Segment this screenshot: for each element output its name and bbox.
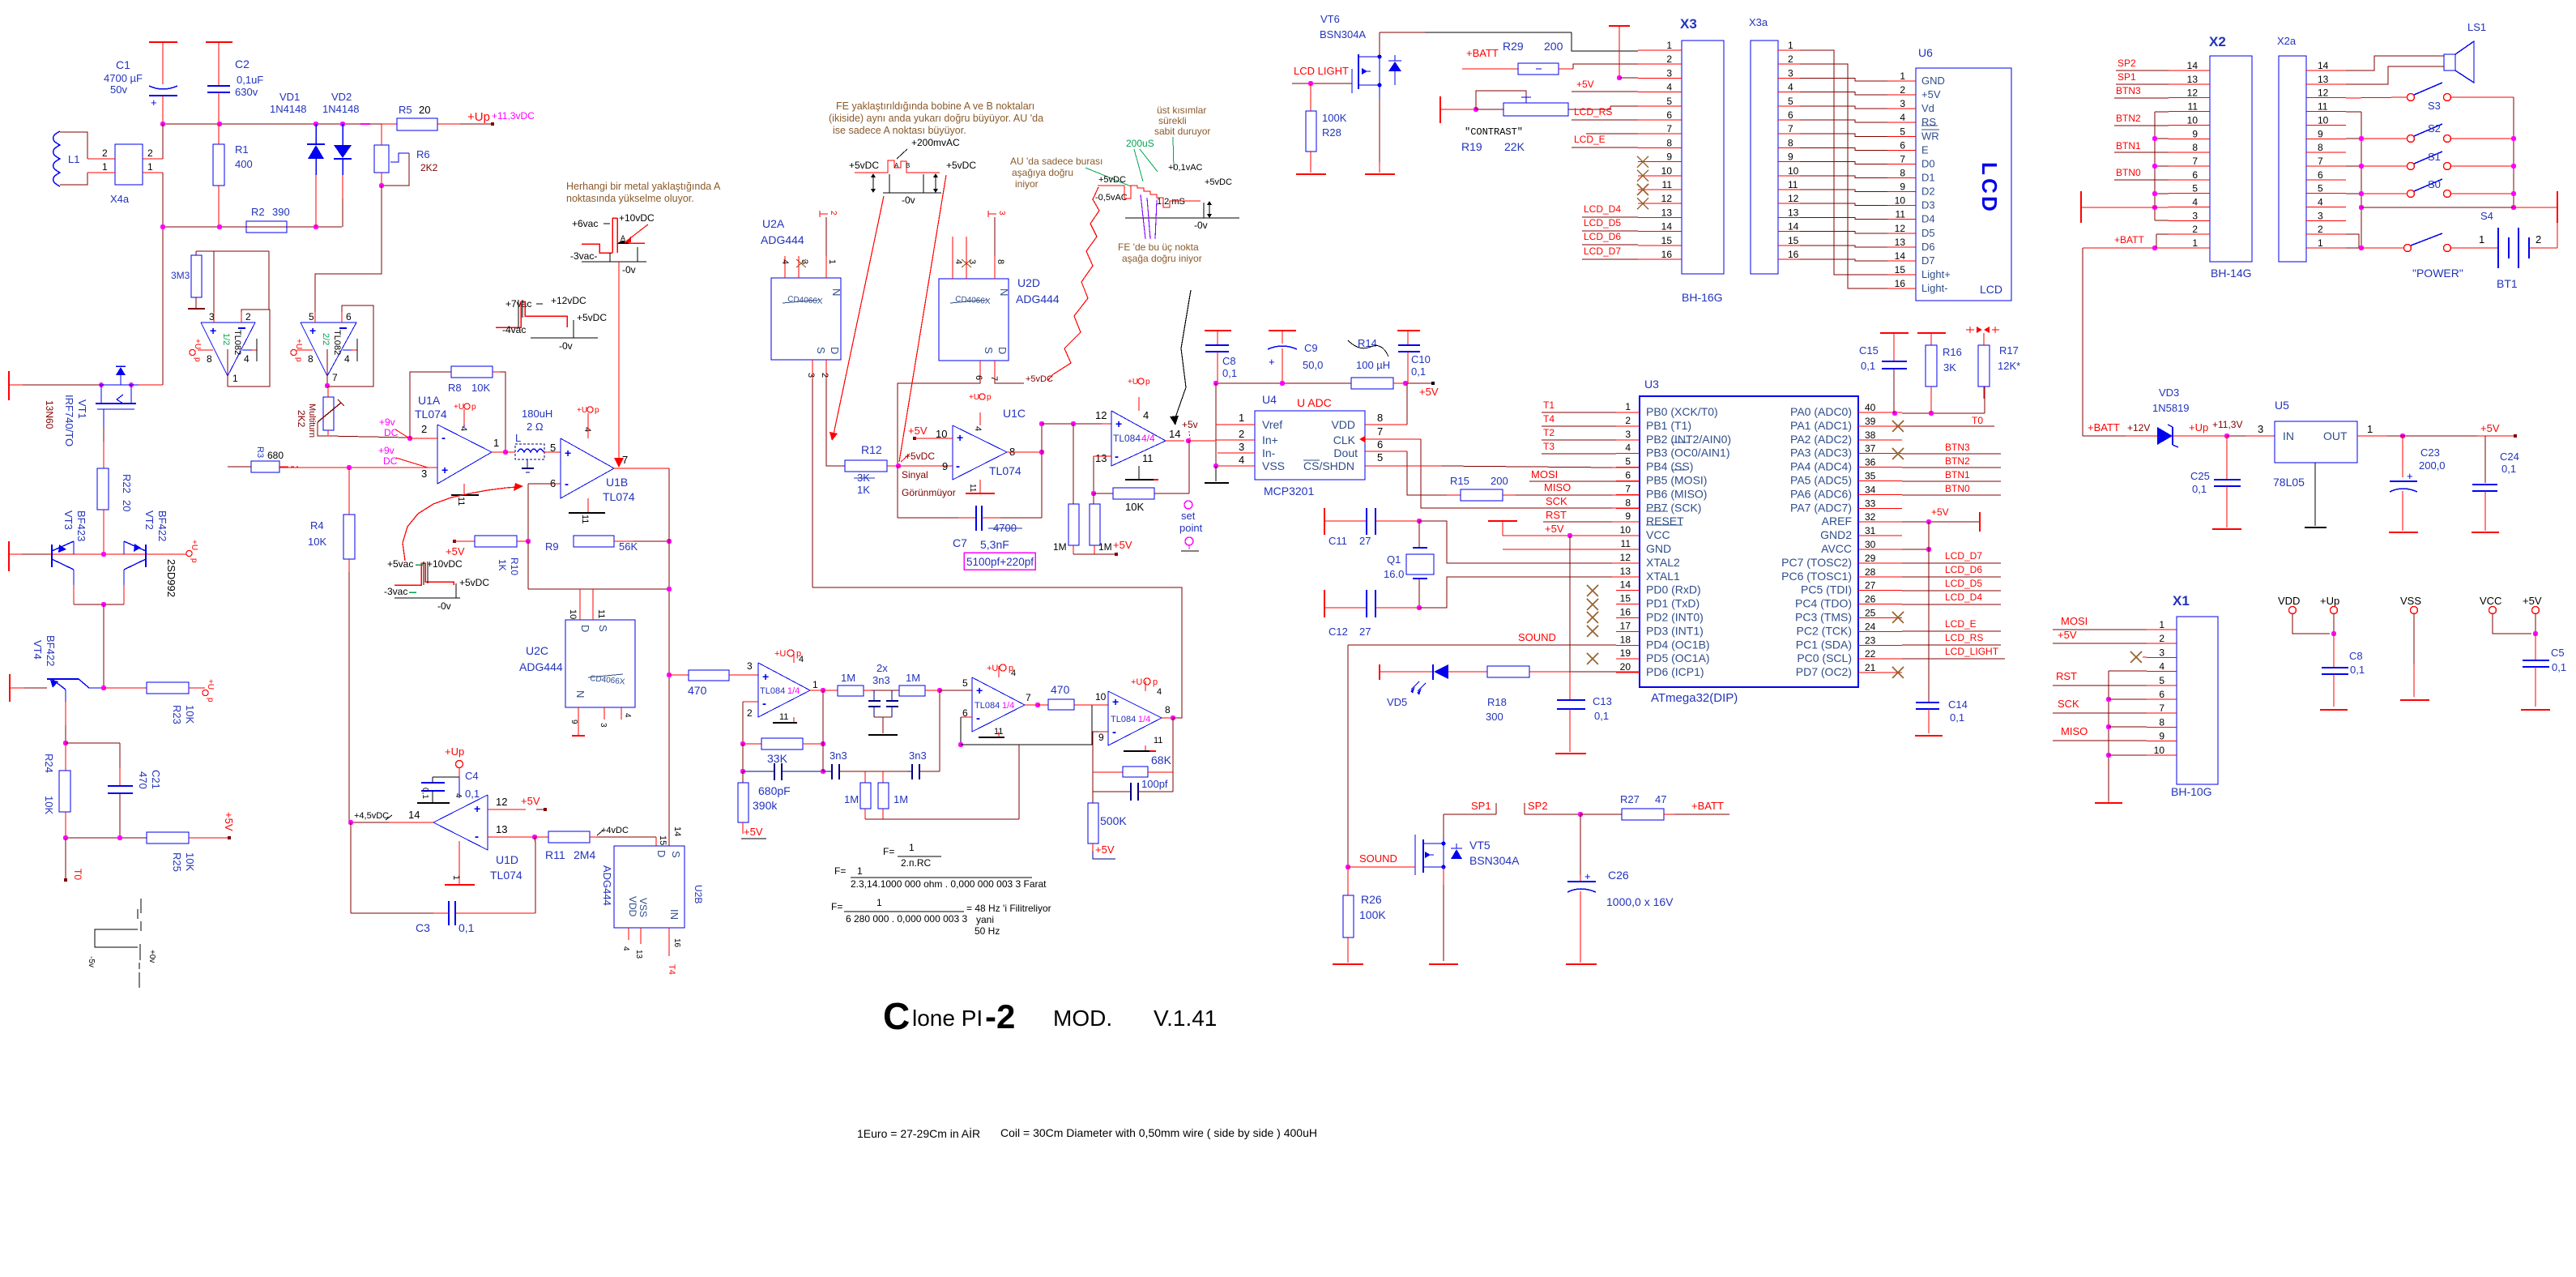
svg-text:R6: R6 [416, 148, 430, 160]
svg-text:11: 11 [596, 609, 606, 618]
svg-text:+U: +U [206, 679, 215, 690]
svg-text:-5v: -5v [87, 956, 96, 967]
svg-text:VT5: VT5 [1469, 839, 1491, 852]
svg-text:-: - [565, 477, 569, 491]
svg-text:VD2: VD2 [331, 91, 352, 103]
svg-text:PD7 (OC2): PD7 (OC2) [1796, 665, 1852, 678]
svg-text:+5V: +5V [1545, 523, 1564, 535]
svg-text:+5V: +5V [1576, 79, 1594, 90]
svg-text:TL074: TL074 [603, 490, 635, 503]
svg-text:1M: 1M [841, 672, 855, 684]
note FE de bu uc nokta [1118, 241, 1202, 264]
svg-text:5: 5 [1788, 96, 1793, 107]
svg-text:3n3: 3n3 [872, 674, 890, 686]
svg-text:C23: C23 [2420, 446, 2440, 459]
net BTN3 X2 [2114, 85, 2169, 98]
svg-text:34: 34 [1865, 484, 1876, 495]
x marks X3 pins 9-12 [1637, 156, 1648, 210]
wire U4 pin6 Dout to R15 [1365, 451, 1447, 495]
svg-text:p: p [471, 403, 476, 412]
net +5V X3 pin4 [1572, 79, 1638, 92]
svg-text:9: 9 [2159, 731, 2164, 742]
svg-text:100 µH: 100 µH [1356, 359, 1390, 371]
net SCK X1 [2053, 698, 2147, 713]
svg-text:6: 6 [2192, 169, 2198, 181]
svg-text:6: 6 [974, 375, 983, 380]
svg-text:7: 7 [1788, 123, 1793, 135]
wire X3a pin2 to Light- [1800, 64, 1887, 288]
svg-text:CS/SHDN: CS/SHDN [1303, 459, 1354, 472]
svg-text:D5: D5 [1921, 227, 1935, 239]
svg-text:4: 4 [2318, 197, 2323, 208]
net LCD_RS right [1902, 632, 2001, 645]
svg-text:R10: R10 [509, 557, 520, 575]
resistor R28 100K [1296, 83, 1347, 174]
svg-text:A: A [894, 162, 899, 169]
svg-text:5: 5 [2192, 183, 2198, 194]
svg-text:+9v: +9v [378, 445, 395, 456]
svg-text:R22: R22 [121, 474, 133, 493]
svg-text:470: 470 [1051, 683, 1070, 696]
svg-text:0,1: 0,1 [2552, 661, 2566, 673]
wire XTAL1 [1419, 577, 1640, 608]
svg-text:C1: C1 [116, 58, 130, 71]
capacitor C15 0,1 [1859, 333, 1909, 413]
svg-text:DC: DC [384, 427, 399, 438]
connector X3 BH-16G [1638, 16, 1724, 304]
svg-text:+: + [210, 324, 216, 337]
svg-text:L1: L1 [68, 153, 79, 165]
svg-text:1/4: 1/4 [787, 686, 800, 696]
svg-text:X3: X3 [1680, 16, 1697, 32]
svg-text:11: 11 [1896, 209, 1906, 220]
svg-text:set: set [1181, 510, 1196, 522]
svg-text:2: 2 [2318, 224, 2323, 235]
wire right bus switches [2511, 97, 2516, 210]
svg-text:-: - [475, 830, 479, 844]
svg-text:+5v: +5v [1182, 419, 1198, 430]
svg-text:-3vac: -3vac [384, 586, 407, 597]
wire R9 vertical to U2B [668, 468, 670, 846]
svg-text:13: 13 [1095, 452, 1107, 464]
power +Up terminal U1D [445, 745, 464, 777]
svg-text:S2: S2 [2428, 122, 2441, 135]
capacitor C12 27 [1324, 590, 1419, 638]
svg-text:BF422: BF422 [156, 510, 168, 541]
wire U4 pins left [1215, 425, 1255, 466]
svg-text:BTN2: BTN2 [2116, 113, 2141, 124]
svg-text:9: 9 [1098, 732, 1104, 743]
note ust kisimlar sabit duruyor [1154, 105, 1210, 137]
svg-text:+U: +U [577, 406, 587, 415]
op-amp TL084 4/4 [1095, 397, 1215, 480]
capacitor C26 1000,0x16V [1566, 814, 1674, 964]
svg-text:BH-16G: BH-16G [1682, 291, 1723, 304]
svg-text:C15: C15 [1859, 344, 1879, 357]
capacitor C5 0,1 [2521, 634, 2566, 710]
svg-text:-: - [1112, 725, 1116, 739]
svg-text:+5V: +5V [744, 826, 763, 838]
svg-text:Coil = 30Cm Diameter with 0,: Coil = 30Cm Diameter with 0,50mm wire ( … [1000, 1126, 1317, 1139]
svg-text:D1: D1 [1921, 171, 1935, 183]
analog switch U2A ADG444 [761, 217, 842, 379]
svg-text:PB6 (MISO): PB6 (MISO) [1646, 487, 1707, 500]
svg-text:MOSI: MOSI [1531, 468, 1558, 480]
svg-text:25: 25 [1865, 608, 1876, 619]
svg-text:-2: -2 [985, 997, 1015, 1036]
connector X3a [1749, 16, 1800, 274]
svg-text:PA2 (ADC2): PA2 (ADC2) [1790, 433, 1852, 446]
svg-text:MCP3201: MCP3201 [1264, 485, 1314, 498]
svg-text:16.0: 16.0 [1384, 568, 1404, 580]
svg-text:1: 1 [876, 897, 882, 908]
net LCD_D5 X3 [1582, 217, 1638, 231]
svg-text:14: 14 [1788, 221, 1799, 233]
set point marks [1179, 501, 1203, 551]
svg-text:= 48 Hz 'i Filitreliyor: = 48 Hz 'i Filitreliyor [966, 903, 1051, 914]
svg-text:3n3: 3n3 [830, 750, 847, 762]
svg-text:3: 3 [997, 211, 1006, 216]
capacitor C1 [104, 42, 177, 124]
wire pot to U1A pin2 [328, 436, 412, 441]
svg-text:SCK: SCK [2058, 698, 2079, 710]
svg-text:+5V: +5V [223, 812, 235, 831]
transistor VT3 BF423 [52, 541, 74, 604]
svg-text:26: 26 [1865, 594, 1876, 605]
svg-text:1K: 1K [497, 559, 508, 571]
label +9v DC arrow1 [379, 416, 408, 438]
switch S3 [2346, 83, 2514, 112]
svg-text:BF423: BF423 [75, 510, 87, 541]
svg-text:9: 9 [2318, 128, 2323, 139]
svg-text:4: 4 [623, 713, 632, 718]
svg-text:6: 6 [2159, 689, 2164, 700]
svg-text:sürekli: sürekli [1158, 115, 1187, 126]
svg-text:36: 36 [1865, 457, 1876, 468]
svg-text:13: 13 [496, 823, 507, 835]
net BTN2 [1902, 455, 2001, 468]
svg-text:R18: R18 [1487, 696, 1507, 708]
svg-text:680: 680 [267, 450, 284, 461]
resistor 3M3 [171, 251, 214, 309]
net BTN1 [1902, 469, 2001, 481]
svg-text:p: p [193, 357, 202, 362]
svg-text:üst kısımlar: üst kısımlar [1157, 105, 1206, 116]
svg-text:14: 14 [2187, 60, 2199, 71]
svg-text:D6: D6 [1921, 241, 1935, 253]
svg-text:7: 7 [1377, 425, 1383, 438]
svg-text:1: 1 [2192, 237, 2198, 249]
wire 1M bottom return [865, 745, 1019, 819]
svg-text:C: C [1977, 178, 2002, 194]
wire XTAL2 [1419, 521, 1640, 563]
svg-text:+5V: +5V [908, 425, 928, 437]
svg-text:2: 2 [1666, 53, 1672, 65]
svg-text:5: 5 [2318, 183, 2323, 194]
svg-text:+5vDC: +5vDC [459, 577, 489, 588]
label VT1 IRF740/TO 13N60 [44, 395, 88, 446]
svg-text:U2A: U2A [762, 217, 785, 230]
svg-text:BSN304A: BSN304A [1469, 854, 1520, 867]
wire VCC to R18 node [1570, 536, 1640, 672]
svg-text:D3: D3 [1921, 199, 1935, 211]
svg-text:PC4 (TDO): PC4 (TDO) [1795, 597, 1852, 610]
op-amp TL084 first filter [747, 652, 825, 723]
svg-text:+: + [474, 802, 480, 815]
svg-text:3: 3 [806, 373, 816, 378]
svg-text:Sinyal: Sinyal [902, 469, 928, 480]
transistor VT1 IRF740 mosfet [96, 366, 163, 427]
power +Up R23 [203, 679, 215, 703]
svg-text:4700 µF: 4700 µF [104, 72, 143, 84]
svg-text:Vref: Vref [1262, 418, 1282, 431]
svg-text:2SD992: 2SD992 [165, 559, 177, 597]
svg-text:+12V: +12V [2127, 422, 2150, 433]
svg-text:X2a: X2a [2277, 35, 2297, 47]
power +Up pin8 TL082-2 [291, 339, 303, 362]
svg-text:MISO: MISO [2061, 725, 2088, 737]
svg-text:10K: 10K [184, 705, 196, 724]
capacitor C2 [206, 42, 263, 124]
footer coil note [857, 1126, 1317, 1140]
svg-text:BTN0: BTN0 [2116, 167, 2141, 178]
svg-text:VDD: VDD [627, 896, 638, 917]
resistor R10 1K [446, 536, 528, 575]
svg-text:10: 10 [1661, 165, 1673, 177]
svg-text:35: 35 [1865, 471, 1876, 482]
svg-text:1: 1 [1625, 401, 1631, 412]
svg-text:14: 14 [408, 809, 420, 821]
svg-text:BTN1: BTN1 [2116, 140, 2141, 152]
svg-text:SP1: SP1 [2118, 71, 2136, 83]
adc U4 MCP3201 [1239, 393, 1383, 498]
label VT3 BF423 [62, 510, 87, 541]
waveform stepped FE diagram [1095, 163, 1239, 239]
svg-text:VD5: VD5 [1387, 696, 1407, 708]
svg-text:10: 10 [568, 609, 578, 619]
svg-text:C: C [883, 995, 910, 1037]
svg-text:2/2: 2/2 [321, 333, 331, 345]
svg-text:7: 7 [2192, 156, 2198, 167]
svg-text:U2C: U2C [526, 644, 548, 657]
svg-text:+: + [309, 324, 316, 337]
svg-text:BSN304A: BSN304A [1320, 28, 1366, 41]
svg-text:15: 15 [1661, 235, 1673, 246]
svg-text:XTAL2: XTAL2 [1646, 556, 1680, 569]
resistor 470 first [667, 670, 758, 697]
wire red squiggle to +5vDC [1047, 187, 1099, 381]
svg-text:PC1 (SDA): PC1 (SDA) [1796, 638, 1852, 651]
svg-text:U4: U4 [1262, 393, 1277, 406]
svg-text:PB1 (T1): PB1 (T1) [1646, 419, 1691, 432]
svg-text:4: 4 [2159, 661, 2164, 673]
svg-text:Light+: Light+ [1921, 268, 1951, 280]
svg-text:PC6 (TOSC1): PC6 (TOSC1) [1781, 570, 1852, 583]
svg-text:U2B: U2B [693, 885, 704, 903]
svg-text:RESET: RESET [1646, 515, 1684, 527]
svg-text:0,1: 0,1 [458, 921, 475, 934]
power +5V VCC pin10 [1488, 521, 1640, 538]
svg-text:N: N [998, 288, 1010, 296]
svg-text:27: 27 [1359, 535, 1371, 547]
svg-text:p: p [1009, 664, 1013, 673]
svg-text:U1A: U1A [418, 394, 441, 407]
wire GND pin11 [1503, 549, 1640, 550]
capacitor 3n3 series b [907, 690, 940, 779]
connector X1 BH-10G [2147, 593, 2218, 798]
op-amp U1C TL074 [908, 407, 1044, 493]
net LCD_D4 X3 [1582, 203, 1638, 217]
regulator U5 78L05 [2273, 399, 2357, 527]
analog switch U2D ADG444 [939, 217, 1060, 381]
wire X4a to rails [162, 124, 164, 385]
svg-text:4: 4 [1143, 409, 1149, 421]
svg-text:Multiturn: Multiturn [307, 404, 317, 438]
svg-text:+5vDC: +5vDC [577, 312, 607, 323]
wire PA0 pin40 net [1892, 387, 1985, 416]
crystal Q1 16.0 [1384, 521, 1434, 610]
svg-text:C9: C9 [1304, 342, 1318, 354]
connector X2 BH-14G [2169, 34, 2252, 280]
net T0 bottom [64, 838, 83, 882]
battery BT1 [2451, 223, 2557, 290]
svg-text:1: 1 [2318, 237, 2323, 249]
resistor 68K [1093, 718, 1173, 777]
resistor R2 [246, 206, 290, 233]
svg-text:1: 1 [1788, 40, 1793, 51]
svg-text:+5vDC: +5vDC [1098, 175, 1126, 185]
svg-text:30: 30 [1865, 539, 1876, 550]
capacitor C8 0,1 [1205, 331, 1237, 383]
svg-text:11: 11 [779, 712, 788, 722]
svg-text:PC3 (TMS): PC3 (TMS) [1795, 611, 1852, 624]
wire U3 left pin stubs [1616, 401, 1640, 673]
svg-text:78L05: 78L05 [2273, 476, 2305, 489]
svg-text:5: 5 [2159, 675, 2164, 686]
capacitor C23 200,0 [2389, 436, 2446, 532]
svg-text:5: 5 [309, 311, 314, 322]
resistor R22 20 [97, 427, 133, 552]
svg-text:+6vac: +6vac [572, 218, 598, 229]
svg-text:T0: T0 [72, 869, 83, 880]
net LCD_LIGHT left [1292, 65, 1352, 86]
svg-text:+U: +U [1131, 677, 1142, 687]
svg-text:1: 1 [147, 161, 153, 173]
svg-text:3: 3 [2159, 647, 2164, 658]
svg-text:U6: U6 [1918, 46, 1933, 59]
svg-text:C10: C10 [1411, 353, 1431, 365]
svg-text:2 Ω: 2 Ω [527, 421, 544, 433]
svg-text:500K: 500K [1100, 814, 1127, 827]
switch S4 POWER [2361, 210, 2493, 280]
svg-text:+5V: +5V [446, 545, 465, 557]
svg-text:S3: S3 [2428, 100, 2441, 112]
svg-text:LCD_D6: LCD_D6 [1945, 564, 1982, 575]
net SP2 X2 [2116, 58, 2169, 70]
svg-text:ADG444: ADG444 [1016, 293, 1060, 305]
svg-text:1: 1 [812, 679, 818, 690]
wire U4 pin7 CLK to SCK [1365, 439, 1640, 508]
wire red curve waveform to pin6 arrow [403, 483, 523, 561]
svg-text:+: + [976, 684, 983, 697]
net T3 flag U2D pin8 [988, 211, 1006, 217]
svg-text:5: 5 [1625, 456, 1631, 468]
svg-text:8: 8 [1377, 412, 1383, 424]
svg-text:1: 1 [1239, 412, 1244, 424]
potentiometer 2K2 Multiturn [296, 387, 344, 438]
power +Up U1B pin4 [577, 406, 599, 415]
svg-text:2: 2 [1239, 428, 1244, 440]
wire U2D D +5vDC [995, 374, 1053, 384]
svg-text:ATmega32(DIP): ATmega32(DIP) [1651, 691, 1738, 705]
svg-text:U3: U3 [1644, 378, 1659, 391]
svg-text:3: 3 [1239, 441, 1244, 453]
svg-text:-: - [441, 431, 446, 445]
svg-text:IRF740/TO: IRF740/TO [63, 395, 75, 446]
svg-text:U1B: U1B [606, 476, 628, 489]
wire TL084-4 feedback 10K [1091, 441, 1189, 513]
svg-text:2: 2 [147, 147, 153, 159]
svg-text:RS: RS [1921, 116, 1936, 128]
svg-text:XTAL1: XTAL1 [1646, 570, 1680, 583]
x marks U3 right pins [1892, 421, 1904, 678]
net T0 right [1902, 415, 1994, 426]
svg-text:p: p [1153, 677, 1158, 687]
wire 1M bottoms +5V [1073, 539, 1132, 556]
svg-text:+4,5vDC: +4,5vDC [354, 811, 389, 821]
svg-text:10: 10 [1095, 691, 1107, 703]
wire red arrow to U1B pin7 [614, 262, 624, 468]
capacitor C11 27 [1324, 508, 1422, 547]
svg-text:U5: U5 [2275, 399, 2289, 412]
svg-text:10K: 10K [43, 796, 55, 814]
svg-text:11: 11 [2318, 101, 2328, 113]
svg-text:R14: R14 [1358, 337, 1377, 349]
svg-text:D4: D4 [1921, 213, 1935, 225]
inductor L1 coil [53, 131, 88, 186]
svg-text:1: 1 [232, 373, 238, 384]
switch S0 [2361, 178, 2514, 198]
op-amp TL084 second filter [962, 666, 1040, 737]
connector X2a [2277, 35, 2346, 262]
svg-text:7: 7 [2318, 156, 2323, 167]
svg-text:38: 38 [1865, 429, 1876, 441]
svg-text:sabit duruyor: sabit duruyor [1154, 126, 1210, 137]
note FE yaklastirildiginda [829, 100, 1043, 136]
svg-text:10K: 10K [1125, 501, 1144, 513]
net LCD_LIGHT right [1902, 646, 2005, 659]
svg-text:11: 11 [1662, 179, 1673, 190]
svg-text:24: 24 [1865, 621, 1876, 632]
svg-text:14: 14 [1661, 221, 1673, 233]
svg-text:D: D [829, 347, 841, 354]
svg-text:AREF: AREF [1822, 515, 1852, 527]
svg-text:PB3 (OC0/AIN1): PB3 (OC0/AIN1) [1646, 446, 1729, 459]
svg-text:BTN1: BTN1 [1945, 469, 1970, 480]
svg-text:C14: C14 [1948, 698, 1968, 711]
svg-text:15: 15 [658, 835, 667, 845]
svg-text:BH-14G: BH-14G [2211, 267, 2252, 280]
svg-text:2: 2 [820, 373, 830, 378]
svg-text:100pf: 100pf [1141, 778, 1168, 790]
svg-text:2: 2 [1900, 84, 1905, 96]
svg-text:SCK: SCK [1546, 495, 1567, 507]
svg-text:2K2: 2K2 [420, 162, 438, 173]
lcd module U6 [1887, 46, 2011, 301]
svg-text:In+: In+ [1262, 433, 1278, 446]
svg-text:16: 16 [1895, 278, 1906, 289]
svg-text:X1: X1 [2173, 593, 2190, 609]
